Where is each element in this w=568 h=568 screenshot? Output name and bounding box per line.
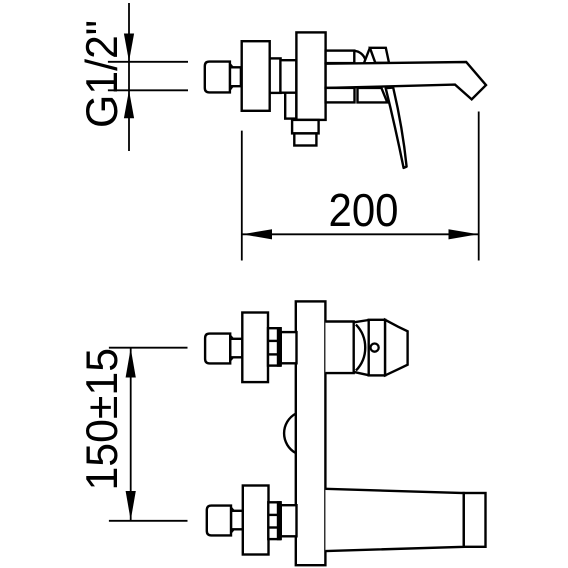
lever hinge block (side view) <box>370 48 389 63</box>
body lower band right (side view) <box>358 88 388 103</box>
lever hinge outer slant (side view) <box>364 48 370 63</box>
spout body (front view) <box>325 489 463 551</box>
drain step 1 (side view) <box>292 120 319 133</box>
top union nut flat line 2 <box>268 353 280 355</box>
top nipple chamfer top <box>230 336 233 339</box>
handle cylinder (front view) <box>325 322 353 374</box>
150 extension line top <box>109 347 188 349</box>
body lower band left (side view) <box>326 88 355 103</box>
svg-text:150±15: 150±15 <box>78 348 127 491</box>
top union nut flat line 1 <box>268 340 280 342</box>
wall plate (front view) <box>296 301 326 565</box>
lever arm (side view) <box>386 88 407 168</box>
G1/2 arrow up <box>124 90 134 118</box>
handle band (front view) <box>369 320 385 376</box>
G1/2 arrow down <box>124 34 134 62</box>
plate bulge arc <box>284 414 296 454</box>
svg-text:200: 200 <box>329 184 399 236</box>
flange bushing (side view) <box>270 58 281 93</box>
bottom union nut (front view) <box>268 502 280 539</box>
spout (side view) <box>326 62 486 99</box>
150 extension line bottom <box>109 520 188 522</box>
top union nut thick edge <box>277 327 282 367</box>
150 arrow down <box>126 491 136 520</box>
top nipple neck (front view) <box>230 339 242 358</box>
wall nipple neck (side view) <box>230 67 241 86</box>
200 extension line left <box>241 131 243 261</box>
200 dimension line <box>242 233 479 235</box>
handle dome arc <box>356 325 365 371</box>
top union nipple cap (front view) <box>205 334 230 364</box>
G1/2 extension line top <box>108 61 188 63</box>
top nipple chamfer bottom <box>230 357 233 360</box>
top wall flange (front view) <box>242 313 268 383</box>
cartridge collar (side view) <box>326 51 355 64</box>
200 arrow right <box>449 229 479 239</box>
bottom inlet spacer (front view) <box>281 505 297 536</box>
bottom union nut flat line 1 <box>268 514 278 516</box>
bottom nipple neck (front view) <box>231 511 243 530</box>
bottom union nipple cap (front view) <box>207 506 231 536</box>
wall nipple cap (side view) <box>205 62 230 93</box>
cartridge dome arc (side view) <box>354 51 365 60</box>
bottom union nut flat line 2 <box>268 526 278 528</box>
handle dome bottom edge <box>354 372 369 375</box>
150 arrow up <box>126 348 136 377</box>
handle screw hole <box>371 344 379 352</box>
drain step 2 (side view) <box>294 133 316 145</box>
handle dome top edge <box>354 320 369 322</box>
top inlet spacer (front view) <box>281 332 297 363</box>
lower connector block (side view) <box>285 93 296 119</box>
200 extension line right <box>478 112 480 261</box>
spout tip ring (front view) <box>464 493 486 547</box>
200 arrow left <box>242 229 272 239</box>
bottom union nut thick edge <box>277 501 282 540</box>
150 dimension line <box>130 348 132 521</box>
svg-text:G1/2": G1/2" <box>78 20 127 128</box>
G1/2 dimension line <box>128 3 130 151</box>
bottom wall flange (front view) <box>243 486 269 555</box>
inlet pipe section (side view) <box>280 60 296 92</box>
top union nut (front view) <box>268 328 280 365</box>
wall flange (side view) <box>242 41 270 111</box>
bottom nipple chamfer bottom <box>231 529 234 532</box>
bottom nipple chamfer top <box>231 508 234 511</box>
G1/2 extension line bottom <box>108 89 188 91</box>
handle knob (front view) <box>385 320 408 376</box>
mixer body (side view) <box>296 32 325 120</box>
nipple chamfer top <box>230 64 233 67</box>
nipple chamfer bottom <box>230 86 233 89</box>
